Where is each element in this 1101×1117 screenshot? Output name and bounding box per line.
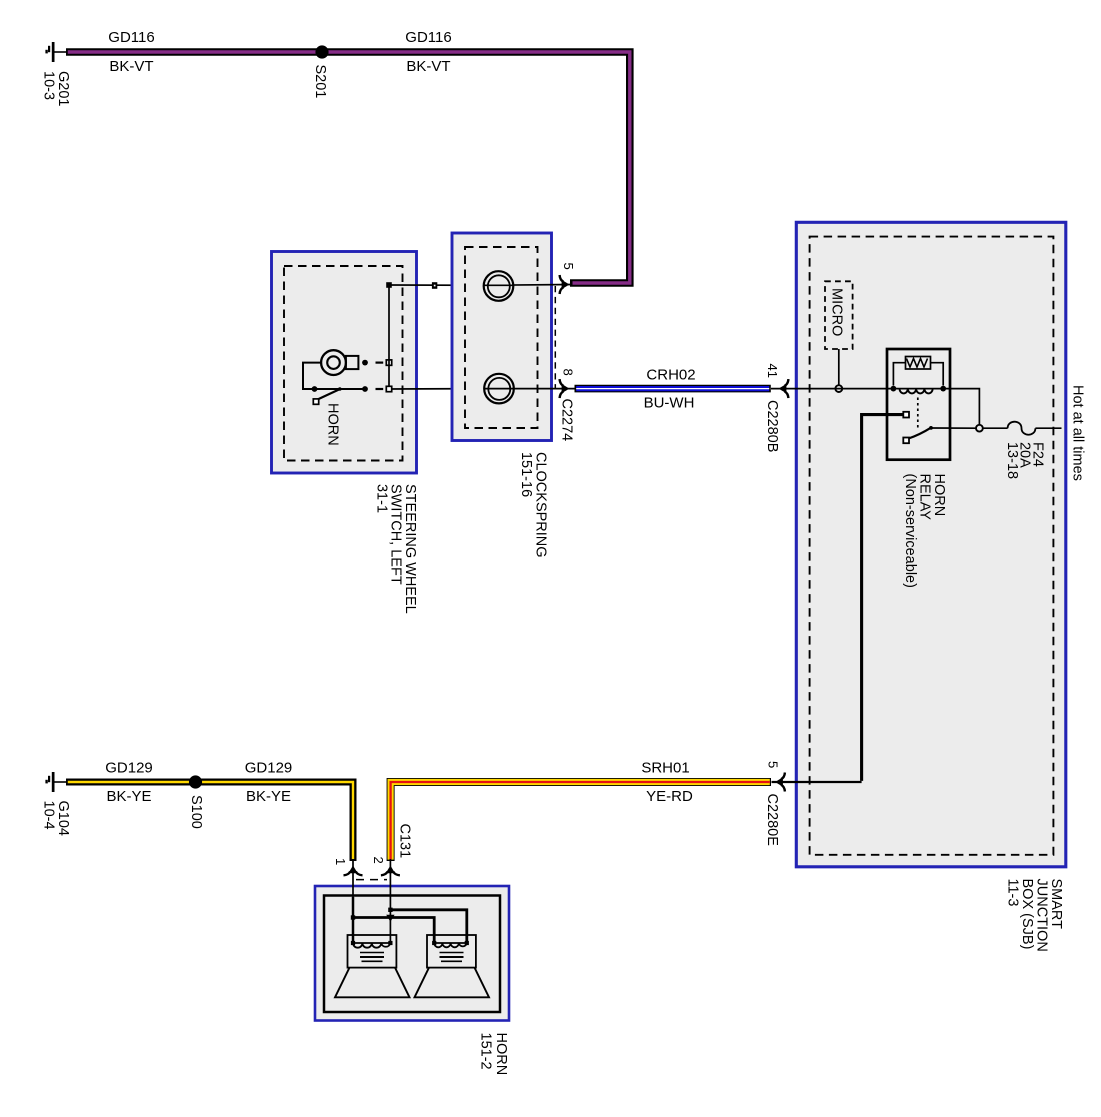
svg-text:Hot at all times: Hot at all times <box>1070 385 1086 481</box>
switch pivot dot <box>312 386 318 392</box>
pin 8 connector arrow <box>560 379 570 398</box>
svg-text:YE-RD: YE-RD <box>646 788 693 805</box>
fuse F24 element <box>1008 422 1036 435</box>
wire SRH01 YE-RD outline <box>391 782 771 861</box>
svg-text:SRH01: SRH01 <box>641 760 689 777</box>
svg-text:2: 2 <box>371 857 386 864</box>
wire through top contact <box>484 284 572 287</box>
dash to terminal (lower) <box>376 388 384 390</box>
relay blade pivot square <box>903 438 909 444</box>
svg-text:GD129: GD129 <box>245 760 293 777</box>
svg-text:41: 41 <box>765 364 780 378</box>
dash to terminal <box>376 362 384 364</box>
relay switch output wire <box>931 427 976 429</box>
wire GD116 BK-VT (violet core) <box>68 52 630 283</box>
right horn coil <box>432 941 469 947</box>
splice S201 <box>315 45 328 58</box>
horn relay box <box>887 349 950 460</box>
svg-text:S201: S201 <box>312 65 328 99</box>
pin 5 connector arrow (SJB) <box>775 773 785 792</box>
left horn coil <box>351 941 393 948</box>
thick branch pin2 to right horn <box>388 908 467 941</box>
wire pivot to terminal <box>315 388 366 390</box>
terminal dot (lower) <box>362 386 368 392</box>
wire to clockspring (top) <box>389 284 484 286</box>
svg-text:CRH02: CRH02 <box>646 367 695 384</box>
right horn cone <box>415 968 490 998</box>
left horn laminations <box>360 953 384 962</box>
inline connector square on top wire <box>432 282 437 289</box>
svg-text:C2280E: C2280E <box>764 794 780 847</box>
clockspring box <box>452 233 552 441</box>
ground G104 <box>45 772 67 792</box>
clockspring contact ring (bottom) <box>484 374 514 404</box>
connector C131 dashed bracket <box>356 879 387 881</box>
svg-text:GD129: GD129 <box>105 760 153 777</box>
wire to clockspring (bottom) <box>389 388 484 390</box>
svg-text:MICRO: MICRO <box>829 288 845 336</box>
right horn coil housing <box>427 935 476 968</box>
resistor right lead <box>931 363 944 386</box>
horn box <box>315 886 509 1021</box>
wire GD129 BK-YE outline <box>66 782 353 861</box>
right horn laminations <box>440 953 464 962</box>
wire GD116 BK-VT (black outline) <box>66 52 630 283</box>
svg-text:BK-VT: BK-VT <box>406 58 450 75</box>
svg-text:C131: C131 <box>397 824 413 859</box>
svg-text:BK-VT: BK-VT <box>109 58 153 75</box>
svg-text:BU-WH: BU-WH <box>644 395 695 412</box>
relay blade <box>909 426 933 439</box>
connector C2274 dashed bracket <box>554 286 556 388</box>
wire pin2 down to left horn <box>389 859 391 943</box>
MICRO box <box>825 281 853 349</box>
svg-text:C2280B: C2280B <box>764 400 780 452</box>
relay actuator dashed link <box>917 398 919 430</box>
fuse F24 wire right <box>1035 427 1061 429</box>
wire from horn circle to switch pivot <box>303 363 321 389</box>
wire through bottom contact <box>484 388 576 390</box>
svg-text:HORN151-2: HORN151-2 <box>478 1033 509 1076</box>
wire SRH01 yellow <box>391 782 770 860</box>
wire coil to fuse node <box>943 389 979 425</box>
thick branch pin1 to right horn <box>351 915 434 941</box>
switch blade pivot square <box>313 399 318 404</box>
svg-text:S100: S100 <box>188 795 204 829</box>
wire pin1 down to left horn <box>352 859 354 898</box>
relay resistor <box>906 357 931 370</box>
pin 1 connector arrow <box>344 866 363 876</box>
svg-text:BK-YE: BK-YE <box>246 788 291 805</box>
terminal dot (tab side) <box>362 360 368 366</box>
open square terminal (upper) <box>386 360 391 365</box>
fuse F24 wire left <box>983 427 1008 429</box>
svg-text:BK-YE: BK-YE <box>106 788 151 805</box>
wire MICRO to junction <box>838 349 840 385</box>
thick feed wire from pin5 riser to relay contact <box>862 415 903 781</box>
junction ring <box>835 385 842 392</box>
wire pin41 into relay coil <box>771 388 893 390</box>
svg-text:1: 1 <box>333 858 348 865</box>
relay coil <box>891 386 947 394</box>
horn switch symbol (circle) <box>321 350 358 375</box>
svg-text:C2274: C2274 <box>559 399 575 442</box>
left horn coil housing <box>348 935 397 968</box>
crossover arrowhead on pin2 wire <box>386 915 394 922</box>
fuse node ring <box>976 425 983 432</box>
ground G201 <box>45 42 67 62</box>
pin 2 connector arrow <box>381 866 400 876</box>
relay contact terminal square <box>903 412 909 418</box>
wire CRH02 white core <box>576 388 769 390</box>
svg-text:8: 8 <box>561 369 576 376</box>
svg-text:GD116: GD116 <box>405 29 451 46</box>
steering wheel switch box <box>272 252 417 474</box>
svg-text:5: 5 <box>766 761 781 768</box>
left horn cone <box>335 968 410 998</box>
wire SRH01 red core <box>391 782 770 860</box>
pin 41 connector arrow <box>779 379 789 398</box>
resistor left lead <box>893 363 905 386</box>
splice S100 <box>189 775 202 788</box>
clockspring contact ring (top) <box>484 271 514 301</box>
svg-text:GD116: GD116 <box>108 29 154 46</box>
open square terminal (lower) <box>386 386 391 391</box>
svg-text:5: 5 <box>561 263 576 270</box>
svg-text:HORN: HORN <box>325 403 341 446</box>
wire GD129 yellow core <box>68 782 353 859</box>
switch blade <box>318 387 342 399</box>
internal vertical wire <box>388 285 390 387</box>
SJB box <box>796 222 1066 867</box>
top terminal square <box>386 282 392 288</box>
pin 5 connector arrow <box>560 275 570 294</box>
pin 5 (C2280E) wire inside SJB <box>772 781 862 783</box>
wire CRH02 blue <box>576 386 769 391</box>
wire CRH02 BU-WH outline <box>575 385 771 393</box>
